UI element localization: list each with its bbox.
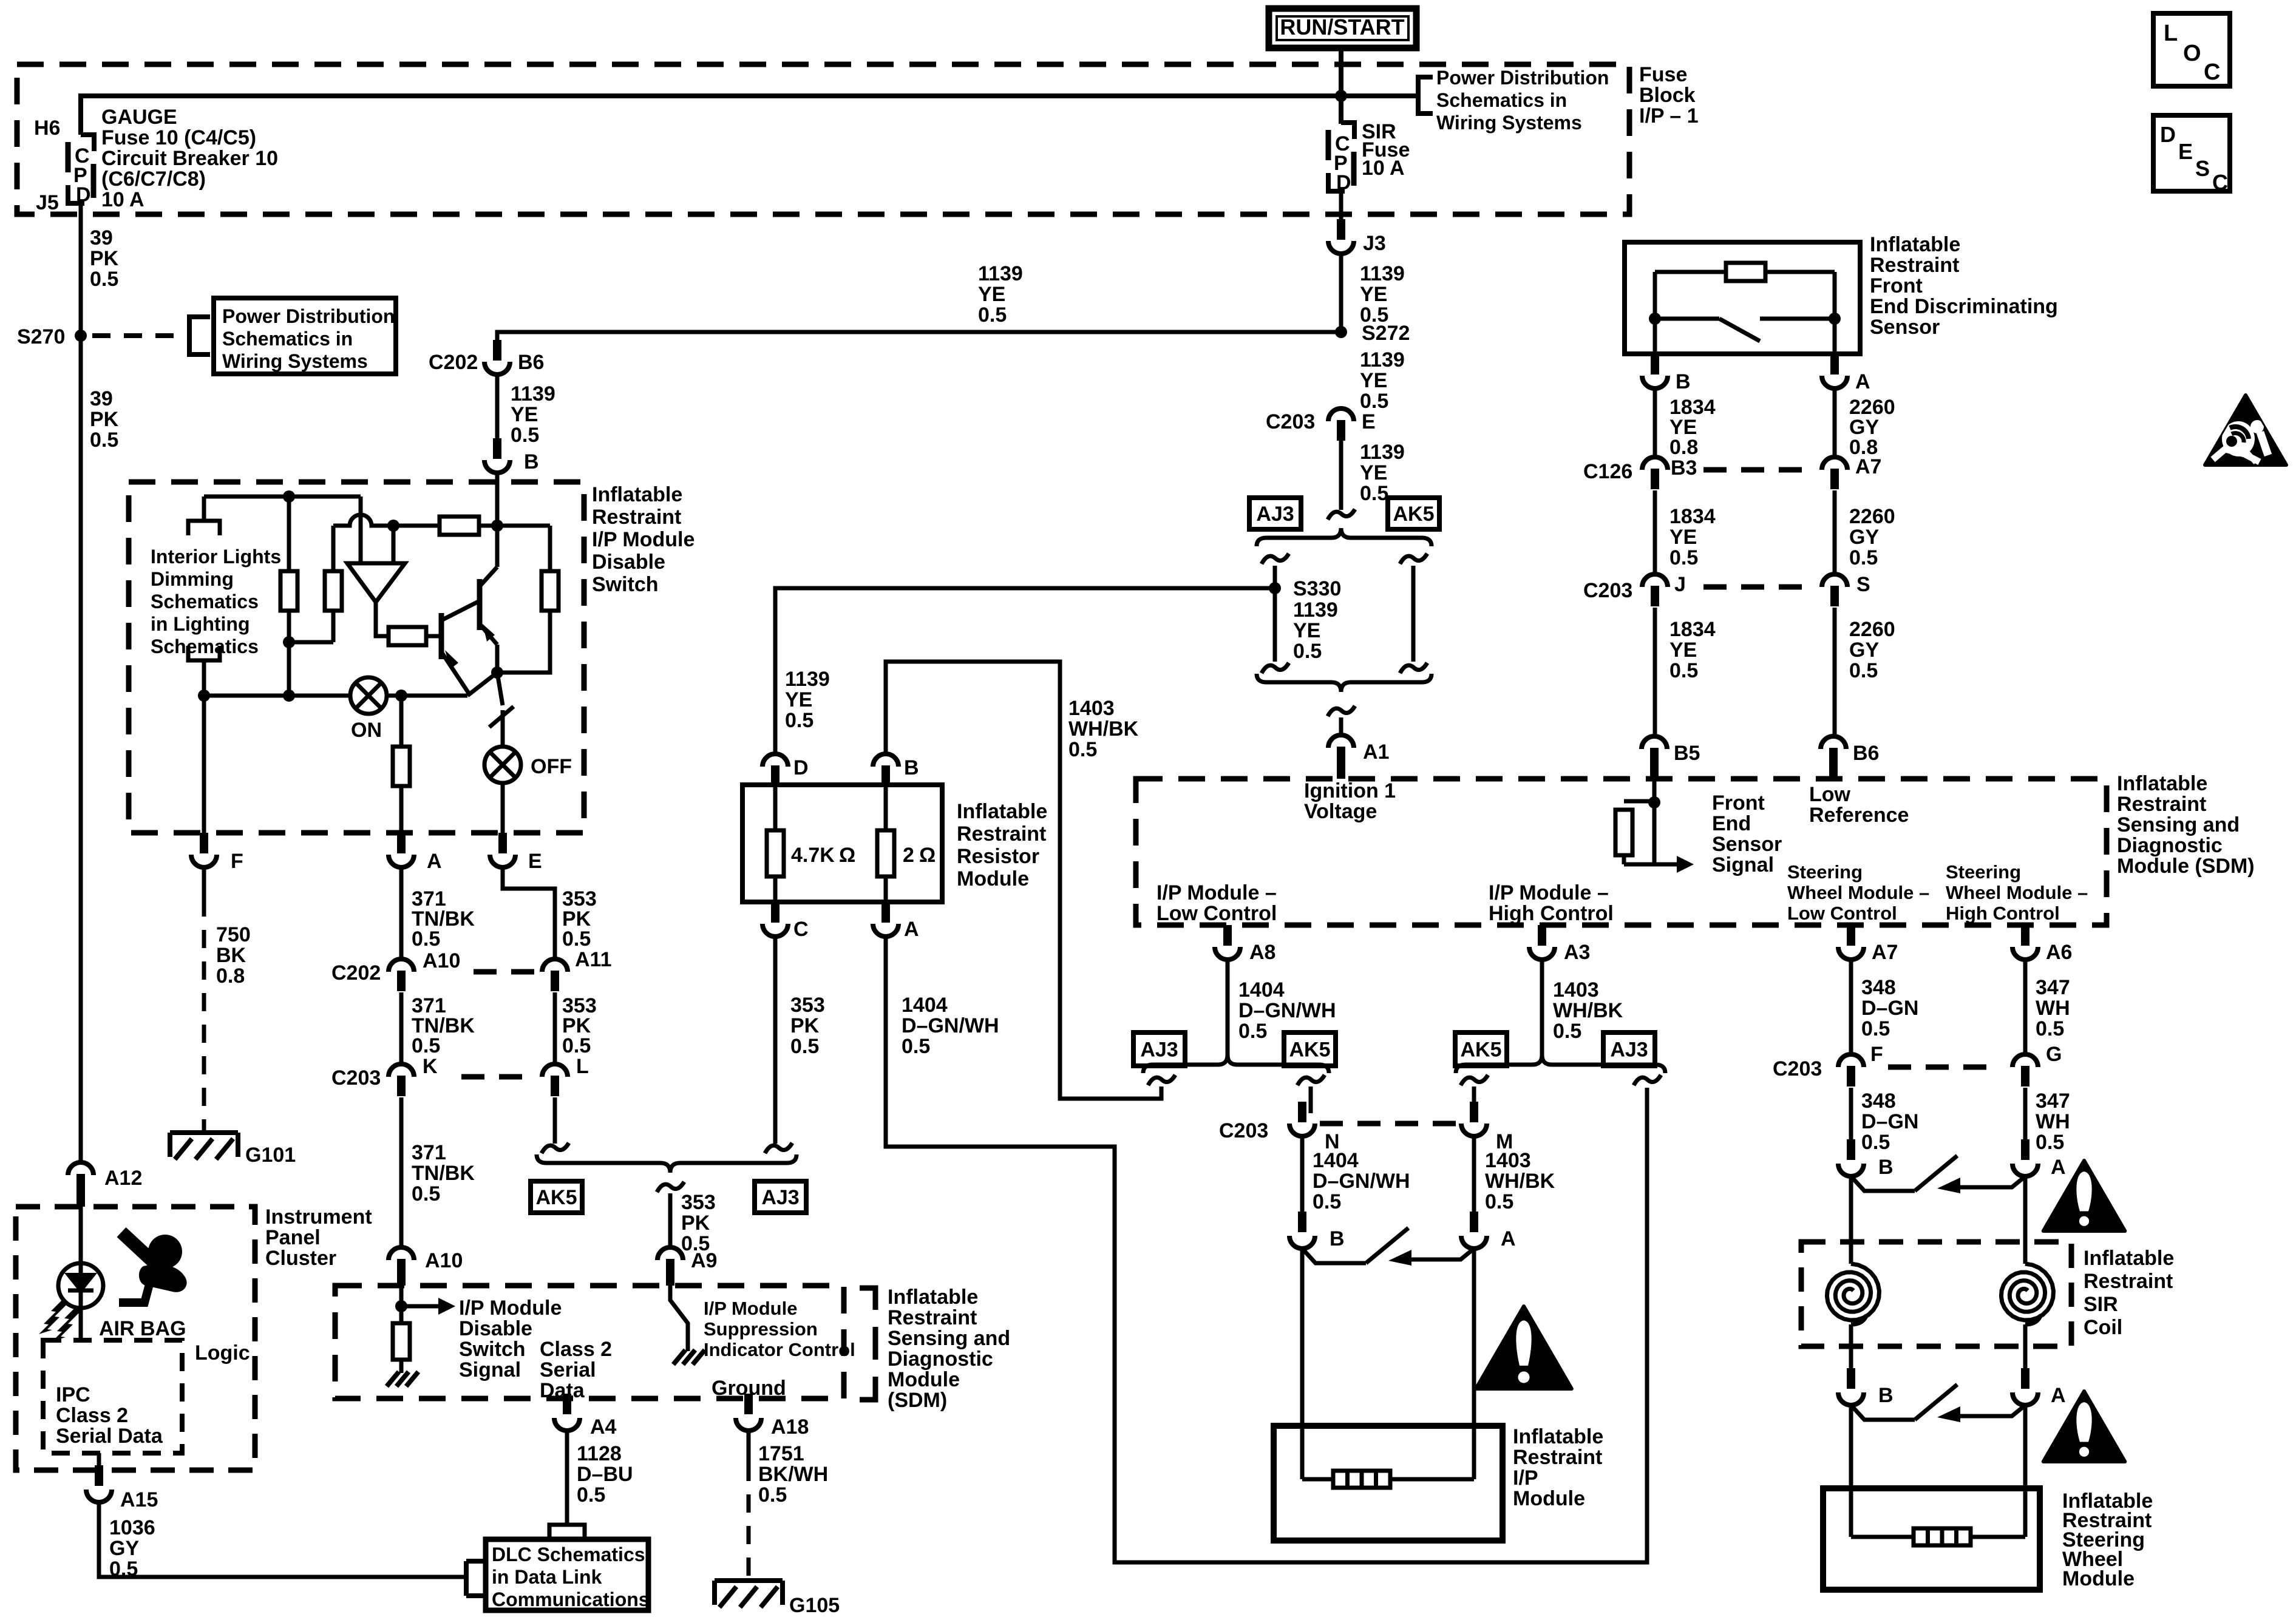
svg-text:A6: A6 [2046, 941, 2072, 964]
svg-text:Sensing and: Sensing and [888, 1327, 1010, 1350]
connector F [191, 833, 243, 873]
svg-text:A18: A18 [771, 1415, 809, 1439]
svg-text:I/P Module: I/P Module [592, 528, 695, 551]
label steering wheel module high control [1946, 861, 2088, 924]
label 348 D-GN 0.5 (1) [1861, 976, 1918, 1040]
label 1139 YE 0.5 at B6 [511, 382, 555, 447]
svg-text:GY: GY [109, 1537, 139, 1560]
svg-text:Switch: Switch [592, 573, 659, 596]
label IP module disable switch signal [459, 1297, 562, 1381]
svg-text:39: 39 [90, 387, 113, 410]
svg-text:Ω: Ω [839, 844, 855, 867]
svg-text:Fuse: Fuse [1639, 63, 1687, 86]
svg-text:A10: A10 [423, 949, 460, 972]
switch tick to OFF lamp [489, 673, 514, 727]
mating line C203 N-M [1320, 1121, 1457, 1127]
LED emission arrows [39, 1299, 80, 1341]
label 1834 YE 0.5 (2) [1669, 618, 1716, 682]
svg-text:1751: 1751 [758, 1442, 804, 1465]
ground (suppression indicator) [673, 1350, 705, 1364]
transistor Q2 collector [480, 526, 497, 586]
wire B into SWM box [1849, 1405, 1853, 1537]
wire A down to C202 A10 [399, 867, 404, 958]
label J5 cavity [36, 191, 59, 214]
svg-text:Logic: Logic [195, 1341, 250, 1364]
svg-text:A8: A8 [1249, 941, 1275, 964]
svg-text:B: B [1878, 1384, 1894, 1407]
box power distribution schematics (left) [214, 298, 396, 374]
svg-text:J: J [1674, 573, 1686, 596]
svg-text:Ignition 1: Ignition 1 [1304, 779, 1396, 802]
svg-text:0.8: 0.8 [1669, 436, 1698, 459]
harness box AJ3 (upper) [1249, 498, 1301, 529]
ground (disable switch signal) [387, 1372, 418, 1386]
bracket to DLC box [466, 1561, 486, 1596]
wire J to B5 [1653, 608, 1657, 736]
svg-text:Serial Data: Serial Data [56, 1425, 163, 1448]
wire LED to IPC box [79, 1308, 83, 1340]
connector B6 into SDM [1821, 736, 1879, 781]
wire J3 to S272 [1339, 254, 1343, 332]
label 1139 YE 0.5 at J3 [1360, 262, 1405, 327]
svg-text:Reference: Reference [1809, 804, 1909, 827]
label 2260 GY 0.5 (2) [1849, 618, 1895, 682]
svg-text:L: L [576, 1055, 589, 1078]
svg-text:S: S [1856, 573, 1870, 596]
svg-text:1403: 1403 [1485, 1149, 1531, 1172]
svg-text:C203: C203 [1583, 579, 1632, 602]
fuse SIR CPD symbol [1328, 123, 1354, 194]
svg-text:1139: 1139 [1360, 262, 1405, 285]
wire S to B6 [1833, 608, 1837, 736]
svg-text:SIR: SIR [2084, 1293, 2118, 1316]
connector C203 N [1219, 1102, 1340, 1153]
svg-text:353: 353 [681, 1191, 716, 1214]
base resistor [389, 627, 426, 645]
svg-text:Inflatable: Inflatable [1870, 233, 1960, 256]
connector A1 into SDM [1328, 735, 1389, 779]
mating line C203 F-G [1888, 1065, 1992, 1070]
comparator triangle [347, 563, 405, 602]
svg-text:0.5: 0.5 [2036, 1131, 2064, 1154]
wire A4 down [565, 1431, 569, 1525]
svg-text:D–BU: D–BU [577, 1463, 633, 1486]
svg-text:347: 347 [2036, 1090, 2070, 1113]
connector A15 [86, 1465, 158, 1511]
disable switch dashed box [129, 482, 584, 833]
svg-text:I/P Module: I/P Module [704, 1298, 797, 1319]
svg-text:C203: C203 [1773, 1057, 1822, 1080]
label 1834 YE 0.5 (1) [1669, 505, 1716, 569]
svg-text:YE: YE [785, 688, 812, 711]
svg-text:B6: B6 [1853, 742, 1879, 765]
label IP module high control [1489, 881, 1614, 925]
svg-text:I/P Module –: I/P Module – [1489, 881, 1609, 904]
svg-text:Wheel Module –: Wheel Module – [1946, 882, 2088, 903]
SIR coil dashed box [1801, 1242, 2071, 1346]
wire R-div2 bottom [331, 611, 336, 642]
connector B (IP module) [1289, 1212, 1345, 1250]
svg-text:10 A: 10 A [101, 188, 144, 211]
airbag pictogram [119, 1232, 187, 1303]
reference bracket lower [188, 646, 220, 660]
wire A7 to S [1833, 490, 1837, 574]
svg-text:Low Control: Low Control [1156, 902, 1277, 925]
label instrument panel cluster [265, 1205, 372, 1270]
svg-text:0.5: 0.5 [1849, 546, 1878, 569]
label 1403 WH/BK 0.5 at M [1485, 1149, 1555, 1213]
wire A15 to DLC [99, 1502, 466, 1577]
DESC key box [2153, 115, 2230, 195]
label front end sensor signal [1712, 792, 1782, 876]
bus wire inside fuse block [81, 96, 1418, 135]
svg-text:A7: A7 [1855, 455, 1881, 478]
reference bracket upper [188, 521, 220, 535]
fuse GAUGE CPD symbol [68, 135, 94, 206]
svg-text:Module: Module [1513, 1487, 1585, 1510]
dimmer top rail junction [283, 490, 295, 503]
connector pair C203 K [331, 1055, 438, 1096]
connector C203 E [1266, 408, 1376, 441]
wire E jog to A11 [503, 867, 555, 958]
wire G to A [2023, 1088, 2028, 1139]
svg-text:750: 750 [216, 923, 251, 946]
svg-text:D–GN/WH: D–GN/WH [1313, 1170, 1410, 1193]
svg-text:0.8: 0.8 [216, 964, 245, 988]
svg-text:Coil: Coil [2084, 1316, 2122, 1339]
label low reference [1809, 783, 1909, 827]
svg-text:PK: PK [90, 408, 119, 431]
svg-text:F: F [231, 850, 243, 873]
svg-text:YE: YE [511, 403, 538, 426]
wire A into SWM box [2023, 1405, 2028, 1537]
node at lamp rail [283, 690, 295, 702]
row2 collector junction [491, 520, 503, 532]
break AJ3 lower [1262, 663, 1289, 673]
svg-text:AK5: AK5 [1460, 1039, 1501, 1062]
svg-text:S272: S272 [1362, 322, 1410, 345]
dashed wire 750 BK to G101 [202, 898, 206, 1130]
lamp rail node [395, 690, 407, 702]
break AJ3 side [1262, 554, 1289, 564]
svg-text:1834: 1834 [1669, 505, 1716, 528]
label inflatable restraint resistor module [957, 800, 1047, 890]
dimmer top rail [204, 495, 361, 499]
shorting switch B-A (coil upper) [1851, 1156, 2025, 1193]
svg-text:0.5: 0.5 [978, 303, 1007, 327]
svg-text:TN/BK: TN/BK [412, 1162, 475, 1185]
box DLC schematics [486, 1539, 648, 1610]
label 1036 GY 0.5 [109, 1516, 155, 1581]
svg-text:K: K [423, 1055, 438, 1078]
svg-text:0.5: 0.5 [90, 268, 118, 291]
svg-text:10 A: 10 A [1362, 157, 1405, 180]
svg-text:High Control: High Control [1489, 902, 1614, 925]
svg-text:B: B [1878, 1156, 1894, 1179]
wire AJ3 branch with S330 [1273, 566, 1277, 662]
connector pair C203 G [2012, 1043, 2062, 1086]
svg-text:0.5: 0.5 [902, 1035, 930, 1058]
wire to A9 [668, 1193, 673, 1247]
connector C203 M [1461, 1102, 1513, 1153]
svg-text:Schematics: Schematics [151, 636, 259, 657]
node divider bottom [283, 636, 295, 648]
svg-text:S270: S270 [17, 325, 65, 348]
coil spiral left [1827, 1264, 1879, 1324]
wire SIR fuse to J3 [1339, 191, 1343, 220]
wire to OFF lamp [501, 710, 505, 747]
svg-text:0.5: 0.5 [511, 424, 539, 447]
warning triangle (IP module) [1476, 1306, 1572, 1389]
instrument panel cluster dashed box [16, 1207, 255, 1470]
svg-text:B: B [1676, 370, 1691, 393]
svg-text:I/P: I/P [1513, 1466, 1538, 1490]
svg-text:Disable: Disable [459, 1317, 532, 1340]
svg-text:Communications: Communications [492, 1588, 650, 1610]
label 1139 YE 0.5 at module D [785, 668, 830, 732]
wire A3 to brace [1540, 960, 1544, 1055]
node S270 [17, 325, 87, 348]
svg-text:Schematics in: Schematics in [1436, 89, 1567, 111]
break A3-AJ3 [1634, 1075, 1661, 1085]
svg-text:Restraint: Restraint [957, 822, 1046, 846]
svg-text:PK: PK [681, 1212, 710, 1235]
svg-text:C: C [2204, 59, 2220, 85]
svg-text:GY: GY [1849, 639, 1879, 662]
svg-text:in Lighting: in Lighting [151, 613, 250, 635]
coil spiral right [2001, 1264, 2053, 1324]
harness box AK5 (lower) [531, 1181, 582, 1213]
inflatable restraint IP module box [1274, 1426, 1503, 1541]
label steering wheel module low control [1787, 861, 1929, 924]
wire IPC to A15 [97, 1453, 101, 1471]
svg-text:A3: A3 [1564, 941, 1590, 964]
connector pair C203 L [542, 1055, 589, 1096]
ground G105 [715, 1581, 840, 1617]
wire OFF lamp to box edge [501, 783, 505, 833]
svg-text:Module: Module [888, 1368, 960, 1391]
LOC key box [2153, 13, 2230, 86]
svg-text:A4: A4 [590, 1415, 617, 1439]
wire module C down [773, 937, 778, 1144]
connector A (coil lower) [2012, 1368, 2066, 1407]
label 347 WH 0.5 (2) [2036, 1090, 2070, 1154]
svg-text:WH: WH [2036, 997, 2070, 1020]
label class 2 serial data [540, 1338, 612, 1402]
harness break at brace top [1328, 509, 1355, 520]
sensor internal switch [1655, 319, 1835, 341]
svg-text:A11: A11 [575, 948, 612, 971]
disable switch signal junction [395, 1286, 407, 1323]
steering wheel module box [1823, 1488, 2040, 1590]
svg-text:Dimming: Dimming [151, 568, 234, 590]
resistor 4.7K [767, 785, 855, 902]
svg-text:Inflatable: Inflatable [2117, 772, 2207, 795]
svg-text:D–GN: D–GN [1861, 997, 1918, 1020]
wire A3-AK5 branch to C203 M [1472, 1086, 1476, 1113]
svg-text:0.5: 0.5 [562, 1034, 591, 1057]
svg-text:F: F [1870, 1043, 1883, 1066]
svg-text:0.5: 0.5 [562, 927, 591, 951]
svg-text:Block: Block [1639, 84, 1696, 107]
wire N to B [1300, 1136, 1305, 1212]
connector A7 from SDM [1838, 925, 1898, 964]
svg-text:I/P Module –: I/P Module – [1156, 881, 1277, 904]
svg-text:Voltage: Voltage [1304, 800, 1377, 823]
break A8-AJ3 [1148, 1075, 1175, 1085]
wire B3 to J [1653, 490, 1657, 574]
svg-text:D–GN/WH: D–GN/WH [902, 1014, 999, 1037]
emitter node [491, 645, 503, 679]
svg-text:Wiring Systems: Wiring Systems [222, 350, 368, 372]
svg-text:AK5: AK5 [535, 1186, 577, 1209]
transistor Q1 base bar [439, 613, 444, 659]
svg-text:WH/BK: WH/BK [1553, 999, 1623, 1022]
base wire to Q1 [426, 634, 441, 639]
svg-text:AK5: AK5 [1393, 503, 1434, 526]
svg-text:Class 2: Class 2 [56, 1404, 128, 1427]
svg-text:J5: J5 [36, 191, 59, 214]
svg-text:C203: C203 [331, 1066, 381, 1090]
wire coil left out [1849, 1324, 1853, 1368]
svg-text:A: A [904, 918, 919, 941]
bracket to power distribution reference (top) [1418, 77, 1433, 114]
svg-text:1404: 1404 [1238, 978, 1285, 1002]
svg-text:1139: 1139 [1360, 441, 1405, 464]
svg-text:AJ3: AJ3 [1140, 1039, 1178, 1062]
svg-text:A: A [1501, 1227, 1516, 1250]
svg-text:S330: S330 [1293, 577, 1341, 600]
svg-text:YE: YE [1669, 526, 1697, 549]
svg-text:348: 348 [1861, 976, 1896, 999]
svg-text:4.7K: 4.7K [791, 844, 835, 867]
squib (SWM) [1914, 1528, 1971, 1545]
svg-text:High Control: High Control [1946, 903, 2060, 924]
svg-text:E: E [1362, 410, 1376, 433]
bracket to power distribution box [189, 317, 210, 354]
svg-text:A: A [427, 850, 442, 873]
break at merge output [1328, 706, 1355, 716]
label 371 TN/BK 0.5 (1) [412, 887, 475, 951]
SDM dashed box [1136, 779, 2107, 925]
label 1404 D-GN/WH 0.5 at N [1313, 1149, 1410, 1213]
label inflatable restraint SIR coil [2084, 1247, 2174, 1339]
row2 rail with hop over input [333, 515, 550, 526]
svg-text:Sensing and: Sensing and [2117, 813, 2240, 836]
LED airbag indicator [58, 1263, 103, 1308]
wire E to harness brace [1339, 441, 1343, 510]
connector A (coil upper) [2012, 1139, 2066, 1179]
svg-text:Front: Front [1712, 792, 1765, 815]
row2 junction to comparator [387, 520, 399, 563]
label 353 PK 0.5 (2) [562, 994, 597, 1057]
svg-text:Front: Front [1870, 274, 1923, 297]
svg-text:End: End [1712, 812, 1751, 835]
svg-text:B: B [1330, 1227, 1345, 1250]
wire A10 to K [399, 992, 404, 1063]
connector B (coil upper) [1838, 1139, 1894, 1179]
connector A12 into cluster [68, 1162, 142, 1207]
svg-text:Power Distribution: Power Distribution [1436, 67, 1609, 89]
connector A8 from SDM [1215, 925, 1275, 964]
svg-text:0.5: 0.5 [412, 927, 440, 951]
svg-text:D–GN: D–GN [1861, 1110, 1918, 1133]
svg-text:A: A [1855, 370, 1870, 393]
svg-text:Cluster: Cluster [265, 1247, 336, 1270]
svg-text:2260: 2260 [1849, 618, 1895, 641]
connector A3 from SDM [1529, 925, 1590, 964]
connector B (sensor) [1642, 354, 1691, 393]
dashed reference wire from S270 [92, 333, 180, 338]
svg-text:1139: 1139 [1360, 348, 1405, 371]
blade to emitter node [467, 673, 497, 696]
label inflatable restraint sensing and diagnostic module (SDM) right [2117, 772, 2255, 878]
svg-text:Serial: Serial [540, 1358, 596, 1381]
squib wiring (SWM) [1851, 1535, 2025, 1539]
label inflatable restraint sensing and diagnostic module SDM [888, 1286, 1010, 1412]
connector A (sensor) [1822, 354, 1870, 393]
svg-text:0.5: 0.5 [1861, 1017, 1890, 1040]
label 2260 GY 0.5 (1) [1849, 505, 1895, 569]
fuse block I/P dashed boundary [17, 64, 1629, 214]
label power distribution schematics (top) [1436, 67, 1609, 134]
connector pair C203 J [1583, 573, 1686, 606]
wire R-div1 to node [287, 611, 291, 696]
svg-text:0.5: 0.5 [90, 429, 118, 452]
svg-text:WH: WH [2036, 1110, 2070, 1133]
harness box AK5 (A3 side) [1455, 1032, 1507, 1066]
harness box AJ3 (lower) [755, 1181, 806, 1213]
svg-text:B5: B5 [1674, 742, 1700, 765]
shorting switch B-A (IP module) [1302, 1228, 1474, 1266]
svg-text:GY: GY [1849, 526, 1879, 549]
svg-text:D: D [793, 756, 809, 779]
label SIR Fuse 10A [1362, 120, 1410, 180]
wire B6 to B [495, 375, 500, 439]
svg-text:Signal: Signal [459, 1358, 521, 1381]
svg-text:YE: YE [978, 283, 1005, 306]
connector pair C203 S [1822, 573, 1870, 606]
label 353 PK 0.5 at A9 [681, 1191, 716, 1255]
wire A12 to LED [79, 1207, 83, 1264]
SDM lower dashed box [335, 1286, 844, 1398]
svg-text:2260: 2260 [1849, 505, 1895, 528]
break C branch [765, 1143, 792, 1153]
label 39 PK 0.5 lower [90, 387, 119, 452]
svg-text:Fuse 10 (C4/C5): Fuse 10 (C4/C5) [101, 126, 256, 149]
label 353 PK 0.5 at module C [790, 994, 825, 1058]
mating line C203 K-L [461, 1074, 535, 1080]
svg-text:0.5: 0.5 [1553, 1020, 1581, 1043]
svg-text:Interior Lights: Interior Lights [151, 546, 281, 568]
warning triangle (sensor) [2205, 395, 2286, 465]
svg-text:C203: C203 [1266, 410, 1315, 433]
svg-text:Steering: Steering [1946, 861, 2021, 883]
wire B to C126 [1653, 388, 1657, 456]
svg-text:0.5: 0.5 [412, 1034, 440, 1057]
label 39 PK 0.5 upper [90, 226, 119, 291]
label bracket SDM lower [860, 1288, 875, 1400]
svg-text:0.5: 0.5 [785, 709, 813, 732]
connector pair C203 F [1773, 1043, 1883, 1086]
svg-text:AIR BAG: AIR BAG [99, 1317, 186, 1340]
svg-text:(SDM): (SDM) [888, 1389, 947, 1412]
lamp ON [350, 677, 387, 714]
label ON [351, 719, 382, 742]
ground G101 [170, 1133, 296, 1167]
sensor internal left leg [1649, 272, 1661, 354]
svg-text:Module: Module [2062, 1567, 2135, 1590]
